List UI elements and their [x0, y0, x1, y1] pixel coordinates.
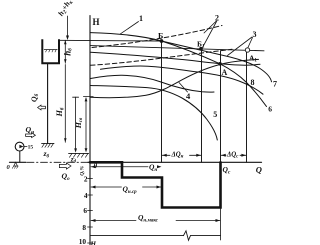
curve 4 (arc with steep tail): [91, 75, 215, 92]
curve 6 (second arc with steep tail): [91, 86, 218, 141]
dimension hб: [64, 40, 66, 63]
bottom line with break: [91, 235, 221, 237]
curve 7 (line through Б and Б1 bending down): [162, 41, 272, 82]
leaders for 3: [228, 37, 253, 56]
ground at tower zб: [42, 142, 54, 144]
svg-text:Н: Н: [93, 17, 100, 27]
dimension ΔQн: [162, 154, 201, 156]
thin vertical below rectangle: [220, 208, 222, 241]
svg-text:4: 4: [84, 191, 88, 200]
leader for 4: [179, 83, 188, 93]
dimension Нсв: [83, 96, 93, 98]
line through Б1 and А1: [91, 46, 265, 51]
label Qо with open arrow: [59, 163, 71, 169]
water level mark in tank: [44, 49, 57, 51]
vertical from Б: [161, 41, 163, 162]
point Б1: [199, 47, 203, 51]
label Qб with open arrow (flow to tower): [30, 93, 40, 102]
axis H (vertical): [89, 16, 91, 245]
svg-text:5: 5: [213, 110, 217, 119]
svg-text:15: 15: [28, 145, 34, 151]
dimension Qн.ср: [91, 186, 161, 188]
svg-text:3: 3: [253, 30, 257, 39]
dimension Нб: [64, 65, 66, 143]
axis Q (horizontal): [88, 161, 262, 163]
point А1 (open circle): [245, 48, 249, 52]
svg-text:8: 8: [82, 223, 86, 232]
svg-text:6: 6: [268, 105, 272, 114]
vertical through А1: [246, 50, 248, 162]
rotated axis unit label: [80, 166, 86, 176]
point Б: [160, 39, 164, 43]
svg-text:Q,%: Q,%: [80, 166, 86, 176]
curve through A flattening right: [91, 52, 261, 65]
svg-text:10: 10: [79, 237, 87, 245]
vertical through А: [220, 51, 222, 163]
water tower tank: [41, 39, 60, 64]
lower axis ticks: [88, 179, 93, 244]
datum dash-dot line: [27, 161, 88, 163]
zд leader line: [73, 96, 79, 98]
leaders for 2: [203, 21, 217, 48]
dimension Qн: [91, 166, 148, 168]
network curve rising through A: [91, 59, 259, 97]
svg-text:Б: Б: [158, 31, 163, 40]
dimension ΔQс: [221, 154, 246, 156]
dimension Qн.макс: [91, 220, 220, 222]
leader for 1: [121, 22, 139, 34]
dashed curve 2 upper branch: [92, 26, 222, 48]
dashed curve 2 lower branch: [91, 49, 233, 65]
arrow from h2+hк down to level line: [67, 16, 69, 38]
tower column: [47, 64, 49, 143]
pump stem: [19, 151, 21, 162]
svg-text:А: А: [222, 68, 228, 77]
curve 8 (long flat arc): [101, 66, 264, 94]
datum mark: [10, 161, 27, 163]
pump symbol: [15, 142, 24, 151]
svg-text:Q: Q: [256, 165, 262, 175]
svg-text:7: 7: [273, 80, 277, 89]
curve 1 (pump characteristic): [91, 33, 267, 107]
step consumption line: [90, 162, 221, 207]
svg-text:1: 1: [139, 14, 143, 23]
ground zд: [69, 152, 89, 154]
vertical from Б1: [201, 49, 203, 163]
svg-text:6: 6: [83, 206, 87, 215]
tank level line (h2+hk level): [59, 39, 162, 42]
svg-text:8: 8: [251, 78, 255, 87]
point А: [218, 62, 222, 66]
label h2+hк (rotated): [56, 0, 75, 18]
